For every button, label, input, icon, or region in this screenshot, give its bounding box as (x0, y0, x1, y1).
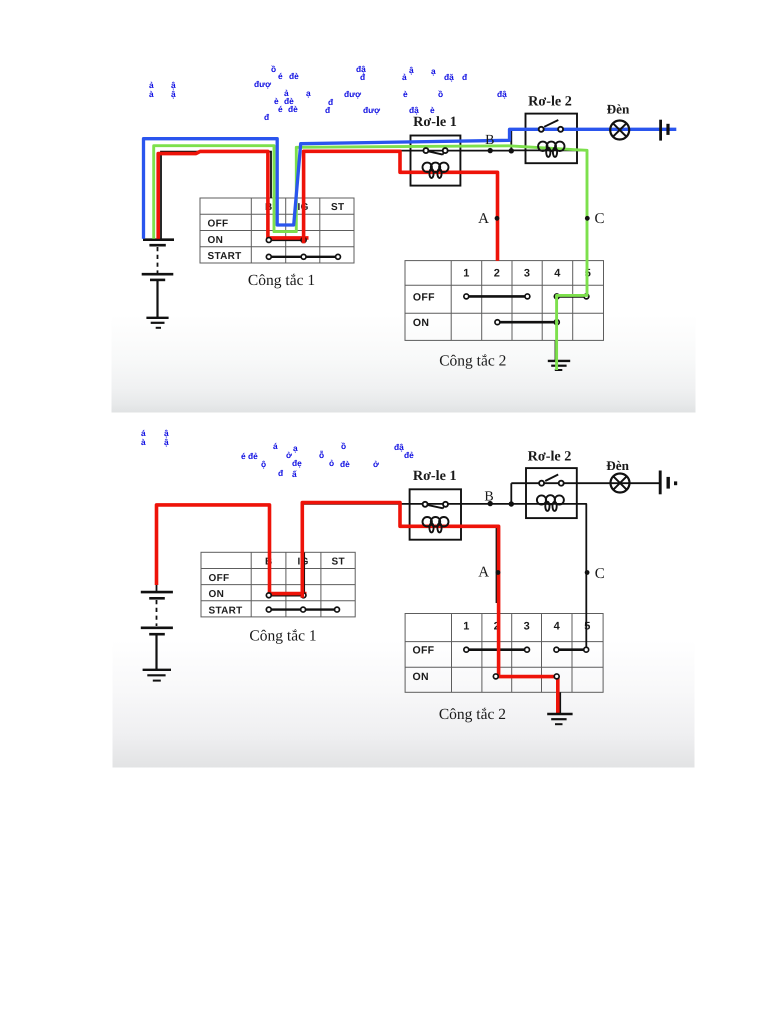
svg-text:2: 2 (494, 268, 500, 280)
svg-text:đ: đ (264, 112, 270, 122)
contact circles ON row Cong tac 1 (diagram 2) (266, 593, 271, 598)
contact line ON row Cong tac 1 (diagram 2) (267, 594, 307, 597)
junction dot at riser (diagram 2) (509, 501, 514, 506)
svg-text:đ: đ (278, 468, 284, 478)
svg-text:é: é (278, 71, 283, 81)
svg-text:3: 3 (524, 621, 530, 633)
wire black: IG to relay R1 to node B (diagram 2) (304, 503, 512, 505)
svg-text:ạ: ạ (293, 443, 298, 453)
node B dot (diagram 2) (488, 501, 493, 506)
svg-text:á: á (273, 441, 278, 451)
svg-text:4: 4 (554, 621, 561, 633)
svg-text:ấ: ấ (292, 469, 297, 479)
svg-text:đượ: đượ (363, 105, 380, 115)
svg-text:START: START (209, 605, 243, 616)
lamp Den (diagram 1) (610, 121, 629, 140)
svg-text:đượ: đượ (344, 89, 361, 99)
svg-text:ả: ả (402, 72, 407, 82)
svg-text:Rơ-le 1: Rơ-le 1 (413, 468, 457, 484)
svg-text:è: è (403, 89, 408, 99)
svg-text:ON: ON (413, 317, 429, 329)
wire black: IG to relay R1 and node B (diagram 1) (400, 150, 511, 152)
svg-text:1: 1 (463, 621, 469, 633)
svg-text:đè: đè (288, 104, 298, 114)
relay R2 coil (diagram 2) (537, 495, 564, 511)
svg-text:ON: ON (413, 671, 429, 683)
svg-text:đ: đ (325, 105, 331, 115)
contact line ON row Cong tac 2 (diagram 1) (497, 321, 556, 324)
svg-text:3: 3 (524, 268, 530, 280)
svg-text:đặ: đặ (444, 72, 454, 82)
contact circles Cong tac 2 rows (diagram 1) (464, 294, 469, 299)
relay R1 coil (diagram 2) (423, 517, 449, 532)
pin labels B IG ST / row labels Cong tac 1 (diagram 2) (209, 557, 345, 617)
battery terminal symbol right (diagram 1) (661, 120, 668, 141)
wire red: battery - Cong tac 1 ON (diagram 1) (158, 151, 308, 238)
contact line START row Cong tac 1 (diagram 1) (267, 256, 340, 258)
svg-text:đè: đè (340, 459, 350, 469)
wire black: Cong tac 2 pin 4 to ground (diagram 2) (559, 692, 561, 714)
relay R1 contact (diagram 2) (423, 502, 428, 507)
pin labels B IG ST / row labels Cong tac 1 (diagram 1) (208, 202, 345, 262)
switch table Cong tac 1 (diagram 1) (200, 198, 354, 263)
node C dot (diagram 1) (585, 216, 590, 221)
row labels OFF ON Cong tac 2 (diagram 2) (413, 645, 435, 683)
relay R2 coil (diagram 1) (538, 142, 564, 157)
svg-text:đ: đ (462, 72, 468, 82)
svg-text:đ: đ (360, 72, 366, 82)
ground (battery, diagram 1) (146, 318, 168, 328)
contact circles ON row Cong tac 2 (diagram 2) (493, 674, 498, 679)
wire black: relay R2 coil feed (diagram 1) (511, 149, 585, 151)
svg-text:ộ: ộ (261, 459, 266, 469)
contact circles ON row Cong tac 1 (diagram 1) (266, 238, 271, 243)
svg-text:B: B (485, 133, 494, 148)
svg-text:à: à (141, 437, 146, 447)
svg-text:A: A (478, 211, 489, 227)
lamp Den (diagram 2) (611, 474, 630, 493)
svg-text:ạ: ạ (306, 88, 311, 98)
svg-text:Rơ-le 2: Rơ-le 2 (528, 94, 572, 110)
svg-text:Rơ-le 1: Rơ-le 1 (413, 114, 457, 130)
svg-text:ạ: ạ (431, 66, 436, 76)
svg-text:Công tắc 2: Công tắc 2 (439, 352, 506, 369)
svg-text:C: C (595, 566, 605, 582)
wire red: battery - Cong tac 1 ON (diagram 2) (157, 505, 307, 594)
wire black: relay R2 coil to node C to Cong tac 2 pin 5 (diagram 2) (511, 504, 586, 650)
svg-text:đậ: đậ (497, 89, 507, 99)
junction dot at riser (diagram 1) (509, 148, 514, 153)
wire black: IG pin up-stroke under red (diagram 2) (303, 553, 305, 596)
wire black: battery to table (diagram 1) (161, 152, 271, 239)
svg-text:ồ: ồ (341, 441, 346, 451)
wire green: battery - Cong tac 1 ON - relay R2 coil - Cong tac 2 - ground (diagram 1) (154, 146, 587, 370)
svg-text:5: 5 (584, 621, 590, 633)
relay R2 contact (diagram 2) (539, 481, 544, 486)
wire red: IG - relay R1 coil - node A - Cong tac 2 (diagram 1) (304, 151, 498, 261)
svg-text:Công tắc 1: Công tắc 1 (249, 628, 316, 645)
relay R1 contact (diagram 1) (423, 148, 428, 153)
wire red: IG - relay R1 coil - node A - Cong tac 2 ON - ground (diagram 2) (302, 503, 558, 714)
wire black: relay R2 contact line to lamp (diagram 2) (511, 482, 660, 484)
svg-text:đậ: đậ (394, 442, 404, 452)
contact line ON row Cong tac 2 (diagram 2) (496, 675, 557, 678)
relay box R1 (diagram 1) (411, 136, 461, 186)
wire blue: battery - Cong tac 1 OFF dip - relay R2 contact - lamp (diagram 1) (144, 129, 677, 239)
svg-text:đẻ: đẻ (404, 450, 414, 460)
switch table Cong tac 2 (diagram 1) (405, 261, 604, 341)
relay box R2 (diagram 1) (526, 114, 578, 164)
svg-text:ồ: ồ (438, 89, 443, 99)
svg-text:ỗ: ỗ (319, 450, 324, 460)
svg-text:C: C (594, 211, 604, 227)
svg-text:OFF: OFF (209, 573, 230, 584)
relay box R2 (diagram 2) (526, 468, 577, 518)
svg-text:đẹ: đẹ (292, 458, 302, 468)
wire black: stub to battery plate (diagram 2) (156, 584, 158, 593)
svg-text:ồ: ồ (271, 64, 276, 74)
svg-text:ON: ON (208, 235, 224, 246)
svg-text:é đẻ: é đẻ (241, 451, 258, 461)
svg-text:B: B (484, 490, 493, 505)
ground (Cong tac 2, diagram 1) (548, 361, 570, 370)
ground (Cong tac 2, diagram 2) (547, 714, 572, 724)
battery B2 (left, diagram 2) (141, 592, 173, 669)
svg-text:Công tắc 2: Công tắc 2 (439, 706, 506, 723)
svg-text:ở: ở (373, 459, 379, 469)
contact line ON row Cong tac 1 (diagram 1) (267, 239, 307, 242)
relay box R1 (diagram 2) (410, 489, 461, 539)
relay R1 coil (diagram 1) (423, 163, 449, 178)
pin numbers 1-5 Cong tac 2 (diagram 2) (463, 621, 590, 633)
switch table Cong tac 2 (diagram 2) (405, 614, 603, 693)
contact line START row Cong tac 1 (diagram 2) (267, 608, 339, 610)
svg-text:é: é (278, 104, 283, 114)
contact line OFF row Cong tac 2 (diagram 1) (466, 295, 527, 298)
svg-text:START: START (208, 251, 242, 262)
svg-text:ậ: ậ (409, 65, 414, 75)
svg-text:ST: ST (331, 202, 344, 213)
annotation text (blue fragments) diagram 2 (141, 428, 414, 479)
svg-text:đè: đè (289, 71, 299, 81)
svg-text:OFF: OFF (413, 292, 435, 304)
svg-text:đượ: đượ (254, 79, 271, 89)
svg-text:Công tắc 1: Công tắc 1 (248, 272, 315, 289)
svg-text:Đèn: Đèn (606, 458, 629, 473)
svg-text:OFF: OFF (413, 645, 435, 657)
battery terminal symbol right (diagram 2) (660, 471, 675, 495)
slide 1 bottom gradient band (112, 315, 696, 413)
wire black: pin 4 to ground under green (diagram 1) (554, 340, 556, 360)
wire black: riser at junction (diagram 2) (510, 483, 512, 505)
wire black: under red at node A (diagram 2) (495, 528, 497, 603)
row labels OFF ON Cong tac 2 (diagram 1) (413, 292, 435, 330)
contact line OFF row Cong tac 2 (diagram 2) (466, 648, 527, 651)
svg-text:OFF: OFF (208, 219, 229, 230)
contact circles OFF row Cong tac 2 (diagram 2) (464, 647, 469, 652)
node A dot (diagram 2) (496, 570, 501, 575)
battery B1 (left, diagram 1) (142, 240, 174, 318)
svg-text:Rơ-le 2: Rơ-le 2 (528, 449, 572, 465)
svg-text:ỏ: ỏ (329, 458, 334, 468)
pin numbers 1-5 Cong tac 2 (diagram 1) (463, 268, 591, 280)
relay R2 contact (diagram 1) (539, 127, 544, 132)
node B dot (diagram 1) (488, 148, 493, 153)
svg-text:A: A (478, 565, 489, 581)
node C dot (diagram 2) (585, 570, 590, 575)
ground (battery, diagram 2) (143, 670, 171, 681)
svg-text:ST: ST (332, 557, 345, 568)
wire black: riser at junction (diagram 1) (510, 129, 512, 151)
svg-text:ậ: ậ (164, 437, 169, 447)
svg-text:4: 4 (554, 268, 561, 280)
svg-text:à: à (149, 89, 154, 99)
switch table Cong tac 1 (diagram 2) (201, 552, 355, 617)
svg-text:Đèn: Đèn (607, 102, 630, 117)
svg-text:ậ: ậ (171, 89, 176, 99)
slide 2 bottom gradient band (113, 640, 695, 768)
annotation text (blue fragments) diagram 1 (149, 64, 507, 122)
node A dot (diagram 1) (495, 216, 500, 221)
svg-text:1: 1 (463, 268, 469, 280)
svg-text:ON: ON (209, 589, 225, 600)
